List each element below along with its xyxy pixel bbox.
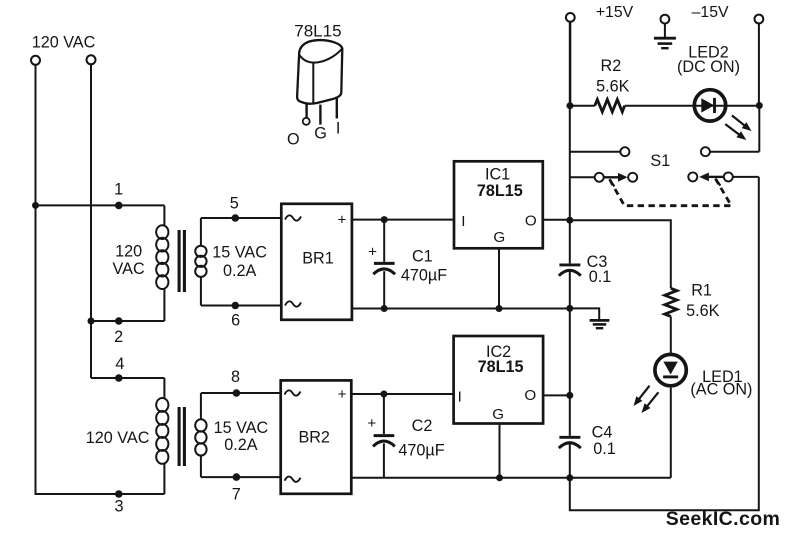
svg-text:0.2A: 0.2A bbox=[223, 262, 257, 280]
svg-text:G: G bbox=[493, 229, 505, 246]
svg-text:O: O bbox=[524, 387, 536, 404]
svg-text:120 VAC: 120 VAC bbox=[86, 429, 150, 447]
svg-text:I: I bbox=[458, 389, 462, 406]
svg-text:R2: R2 bbox=[601, 57, 622, 75]
svg-text:6: 6 bbox=[231, 312, 240, 330]
svg-text:1: 1 bbox=[114, 180, 123, 198]
node IC1 output junction bbox=[566, 217, 573, 224]
wire T1 primary bottom bbox=[91, 320, 164, 322]
svg-text:C2: C2 bbox=[412, 417, 433, 435]
node S1 pole right bbox=[724, 172, 733, 181]
LED2 light arrow 2 bbox=[725, 124, 746, 140]
wire right input B vertical bbox=[90, 64, 92, 378]
wire T1 secondary bottom to BR1 bbox=[201, 305, 281, 307]
wire left input A vertical + bottom horizontal bbox=[36, 65, 165, 494]
IC2 ground pin wire bbox=[499, 424, 501, 478]
node 120 VAC input terminal B bbox=[87, 55, 96, 64]
svg-text:BR1: BR1 bbox=[302, 250, 334, 268]
wire IC1 output bbox=[543, 219, 570, 221]
wire BR1 output top rail to IC1 bbox=[352, 219, 454, 221]
svg-text:5.6K: 5.6K bbox=[686, 302, 720, 320]
BR2 ac tilde bottom bbox=[285, 477, 301, 482]
wire output junction to R1 bbox=[570, 220, 671, 288]
switch S1 right arm arrow bbox=[699, 173, 723, 186]
svg-text:VAC: VAC bbox=[113, 260, 145, 278]
transformer T2 core bbox=[179, 407, 184, 466]
svg-text:2: 2 bbox=[114, 328, 123, 346]
svg-text:0.2A: 0.2A bbox=[224, 436, 258, 454]
wire S1 row1 right bbox=[710, 151, 759, 153]
bridge rectifier BR2 bbox=[281, 380, 352, 493]
svg-text:470µF: 470µF bbox=[398, 442, 444, 460]
switch S1 left arm arrow bbox=[604, 173, 627, 187]
svg-text:+: + bbox=[338, 386, 347, 403]
resistor R1 5.6K bbox=[665, 288, 677, 316]
svg-text:C1: C1 bbox=[412, 248, 433, 266]
node 7 bbox=[233, 473, 241, 481]
BR2 ac tilde top bbox=[285, 390, 301, 395]
svg-text:–15V: –15V bbox=[692, 4, 729, 21]
wire ground rail section1 bbox=[352, 308, 570, 310]
wire bottom rail section2 bbox=[351, 477, 671, 479]
node S1 pole left bbox=[595, 173, 604, 182]
ground terminal top bbox=[654, 15, 676, 49]
svg-text:BR2: BR2 bbox=[298, 429, 330, 447]
node 4 bbox=[115, 374, 123, 382]
svg-text:O: O bbox=[525, 212, 537, 229]
wire S1 row2 left bbox=[570, 176, 595, 178]
transformer T1 core bbox=[179, 230, 184, 292]
svg-text:0.1: 0.1 bbox=[589, 268, 612, 286]
node 8 bbox=[233, 389, 241, 397]
switch S1 mechanical link dashed bbox=[610, 179, 732, 206]
capacitor C2 bbox=[373, 394, 395, 478]
node junction input B bbox=[88, 318, 95, 325]
node C2 top bbox=[380, 391, 387, 398]
wire R1 to LED1 bbox=[670, 316, 672, 353]
regulator IC2 box bbox=[454, 336, 543, 424]
node 2 bbox=[115, 317, 123, 325]
svg-text:3: 3 bbox=[114, 497, 123, 515]
svg-text:R1: R1 bbox=[691, 281, 712, 299]
svg-text:G: G bbox=[492, 406, 504, 423]
svg-text:0.1: 0.1 bbox=[593, 440, 616, 458]
node junction left rail bbox=[32, 202, 39, 209]
svg-text:78L15: 78L15 bbox=[294, 21, 341, 40]
node +15V terminal bbox=[566, 13, 575, 22]
capacitor C4 bbox=[559, 437, 581, 448]
wire BR2 output top rail to IC2 bbox=[351, 393, 453, 395]
node R2 left bbox=[567, 102, 574, 109]
node C1 bottom bbox=[381, 305, 388, 312]
svg-text:5.6K: 5.6K bbox=[596, 78, 630, 96]
wire row 4 to T2 primary bbox=[91, 377, 164, 379]
node 3 bbox=[115, 490, 123, 498]
BR1 ac tilde top bbox=[285, 215, 301, 220]
node 120 VAC input terminal A bbox=[31, 56, 40, 65]
wire S1 row2 right bbox=[733, 176, 759, 178]
svg-text:+: + bbox=[337, 212, 346, 229]
svg-text:(DC ON): (DC ON) bbox=[677, 58, 740, 76]
svg-text:(AC ON): (AC ON) bbox=[690, 381, 752, 399]
node LED2 right bbox=[756, 102, 763, 109]
svg-text:SeekIC.com: SeekIC.com bbox=[666, 508, 781, 530]
wire +15V down bbox=[569, 22, 571, 106]
wire LED1 bottom bbox=[670, 388, 672, 478]
svg-text:78L15: 78L15 bbox=[477, 182, 523, 200]
transformer T2 primary winding bbox=[156, 378, 168, 494]
node -15V terminal bbox=[755, 15, 764, 24]
wire IC2 output bbox=[543, 394, 570, 396]
svg-text:I: I bbox=[336, 119, 341, 137]
svg-text:I: I bbox=[461, 213, 465, 230]
IC1 ground pin wire bbox=[498, 248, 500, 308]
wire S1 row1 left bbox=[570, 151, 621, 153]
bridge rectifier BR1 bbox=[281, 204, 352, 320]
svg-text:+: + bbox=[367, 415, 376, 432]
node ground junction bbox=[566, 305, 573, 312]
svg-text:15 VAC: 15 VAC bbox=[212, 243, 267, 261]
wire top rail to T1 primary bbox=[36, 204, 165, 206]
main middle vertical rail bbox=[569, 22, 571, 264]
svg-text:120 VAC: 120 VAC bbox=[32, 34, 96, 52]
resistor R2 5.6K bbox=[595, 100, 625, 112]
wire T2 secondary bottom to BR2 bbox=[201, 476, 281, 478]
BR1 ac tilde bottom bbox=[285, 301, 301, 306]
node S1 throw left bbox=[628, 173, 637, 182]
transformer T1 primary winding bbox=[156, 205, 168, 321]
node C4 bottom bbox=[566, 474, 573, 481]
transformer T2 secondary winding bbox=[195, 393, 206, 477]
node 1 bbox=[115, 202, 123, 210]
svg-text:78L15: 78L15 bbox=[478, 358, 524, 376]
wire bottom return to right rail bbox=[570, 177, 759, 510]
svg-text:+: + bbox=[368, 244, 377, 261]
svg-text:4: 4 bbox=[115, 355, 124, 373]
wire R2 to LED2 to right rail bbox=[625, 105, 760, 107]
node IC1 ground bbox=[496, 305, 503, 312]
LED1 light arrow 1 bbox=[634, 386, 650, 406]
svg-text:8: 8 bbox=[231, 368, 240, 386]
node 6 bbox=[232, 302, 240, 310]
wire T1 secondary top to BR1 bbox=[201, 217, 281, 219]
node IC2 ground bbox=[496, 474, 503, 481]
node C1 top bbox=[381, 216, 388, 223]
svg-text:7: 7 bbox=[232, 486, 241, 504]
LED2 light arrow 1 bbox=[732, 115, 752, 131]
regulator IC1 box bbox=[454, 161, 543, 248]
node S1 throw right bbox=[688, 172, 697, 181]
LED1 diode bbox=[655, 354, 686, 385]
svg-text:470µF: 470µF bbox=[401, 267, 447, 285]
ground symbol middle bbox=[570, 308, 610, 328]
capacitor C3 bbox=[559, 265, 581, 276]
node S1 contact row1 right bbox=[701, 147, 710, 156]
svg-text:G: G bbox=[314, 124, 327, 142]
capacitor C1 bbox=[373, 220, 395, 309]
wire R2 row left bbox=[570, 105, 595, 107]
svg-text:S1: S1 bbox=[650, 152, 670, 170]
transformer T1 secondary winding bbox=[195, 218, 206, 306]
svg-text:+15V: +15V bbox=[596, 4, 634, 21]
node IC2 output junction bbox=[566, 392, 573, 399]
LED2 diode bbox=[694, 90, 725, 121]
node S1 contact row1 left bbox=[620, 147, 629, 156]
78L15 TO-92 package drawing bbox=[297, 40, 342, 125]
svg-text:O: O bbox=[287, 131, 300, 149]
wire -15V down bbox=[758, 23, 760, 105]
wire T2 secondary top to BR2 bbox=[201, 392, 281, 394]
svg-text:5: 5 bbox=[230, 194, 239, 212]
wire right vertical upper bbox=[758, 106, 760, 152]
svg-text:C4: C4 bbox=[592, 423, 613, 441]
node 5 bbox=[232, 214, 240, 222]
svg-text:15 VAC: 15 VAC bbox=[214, 419, 269, 437]
LED1 light arrow 2 bbox=[642, 392, 659, 413]
svg-text:120: 120 bbox=[115, 243, 142, 261]
